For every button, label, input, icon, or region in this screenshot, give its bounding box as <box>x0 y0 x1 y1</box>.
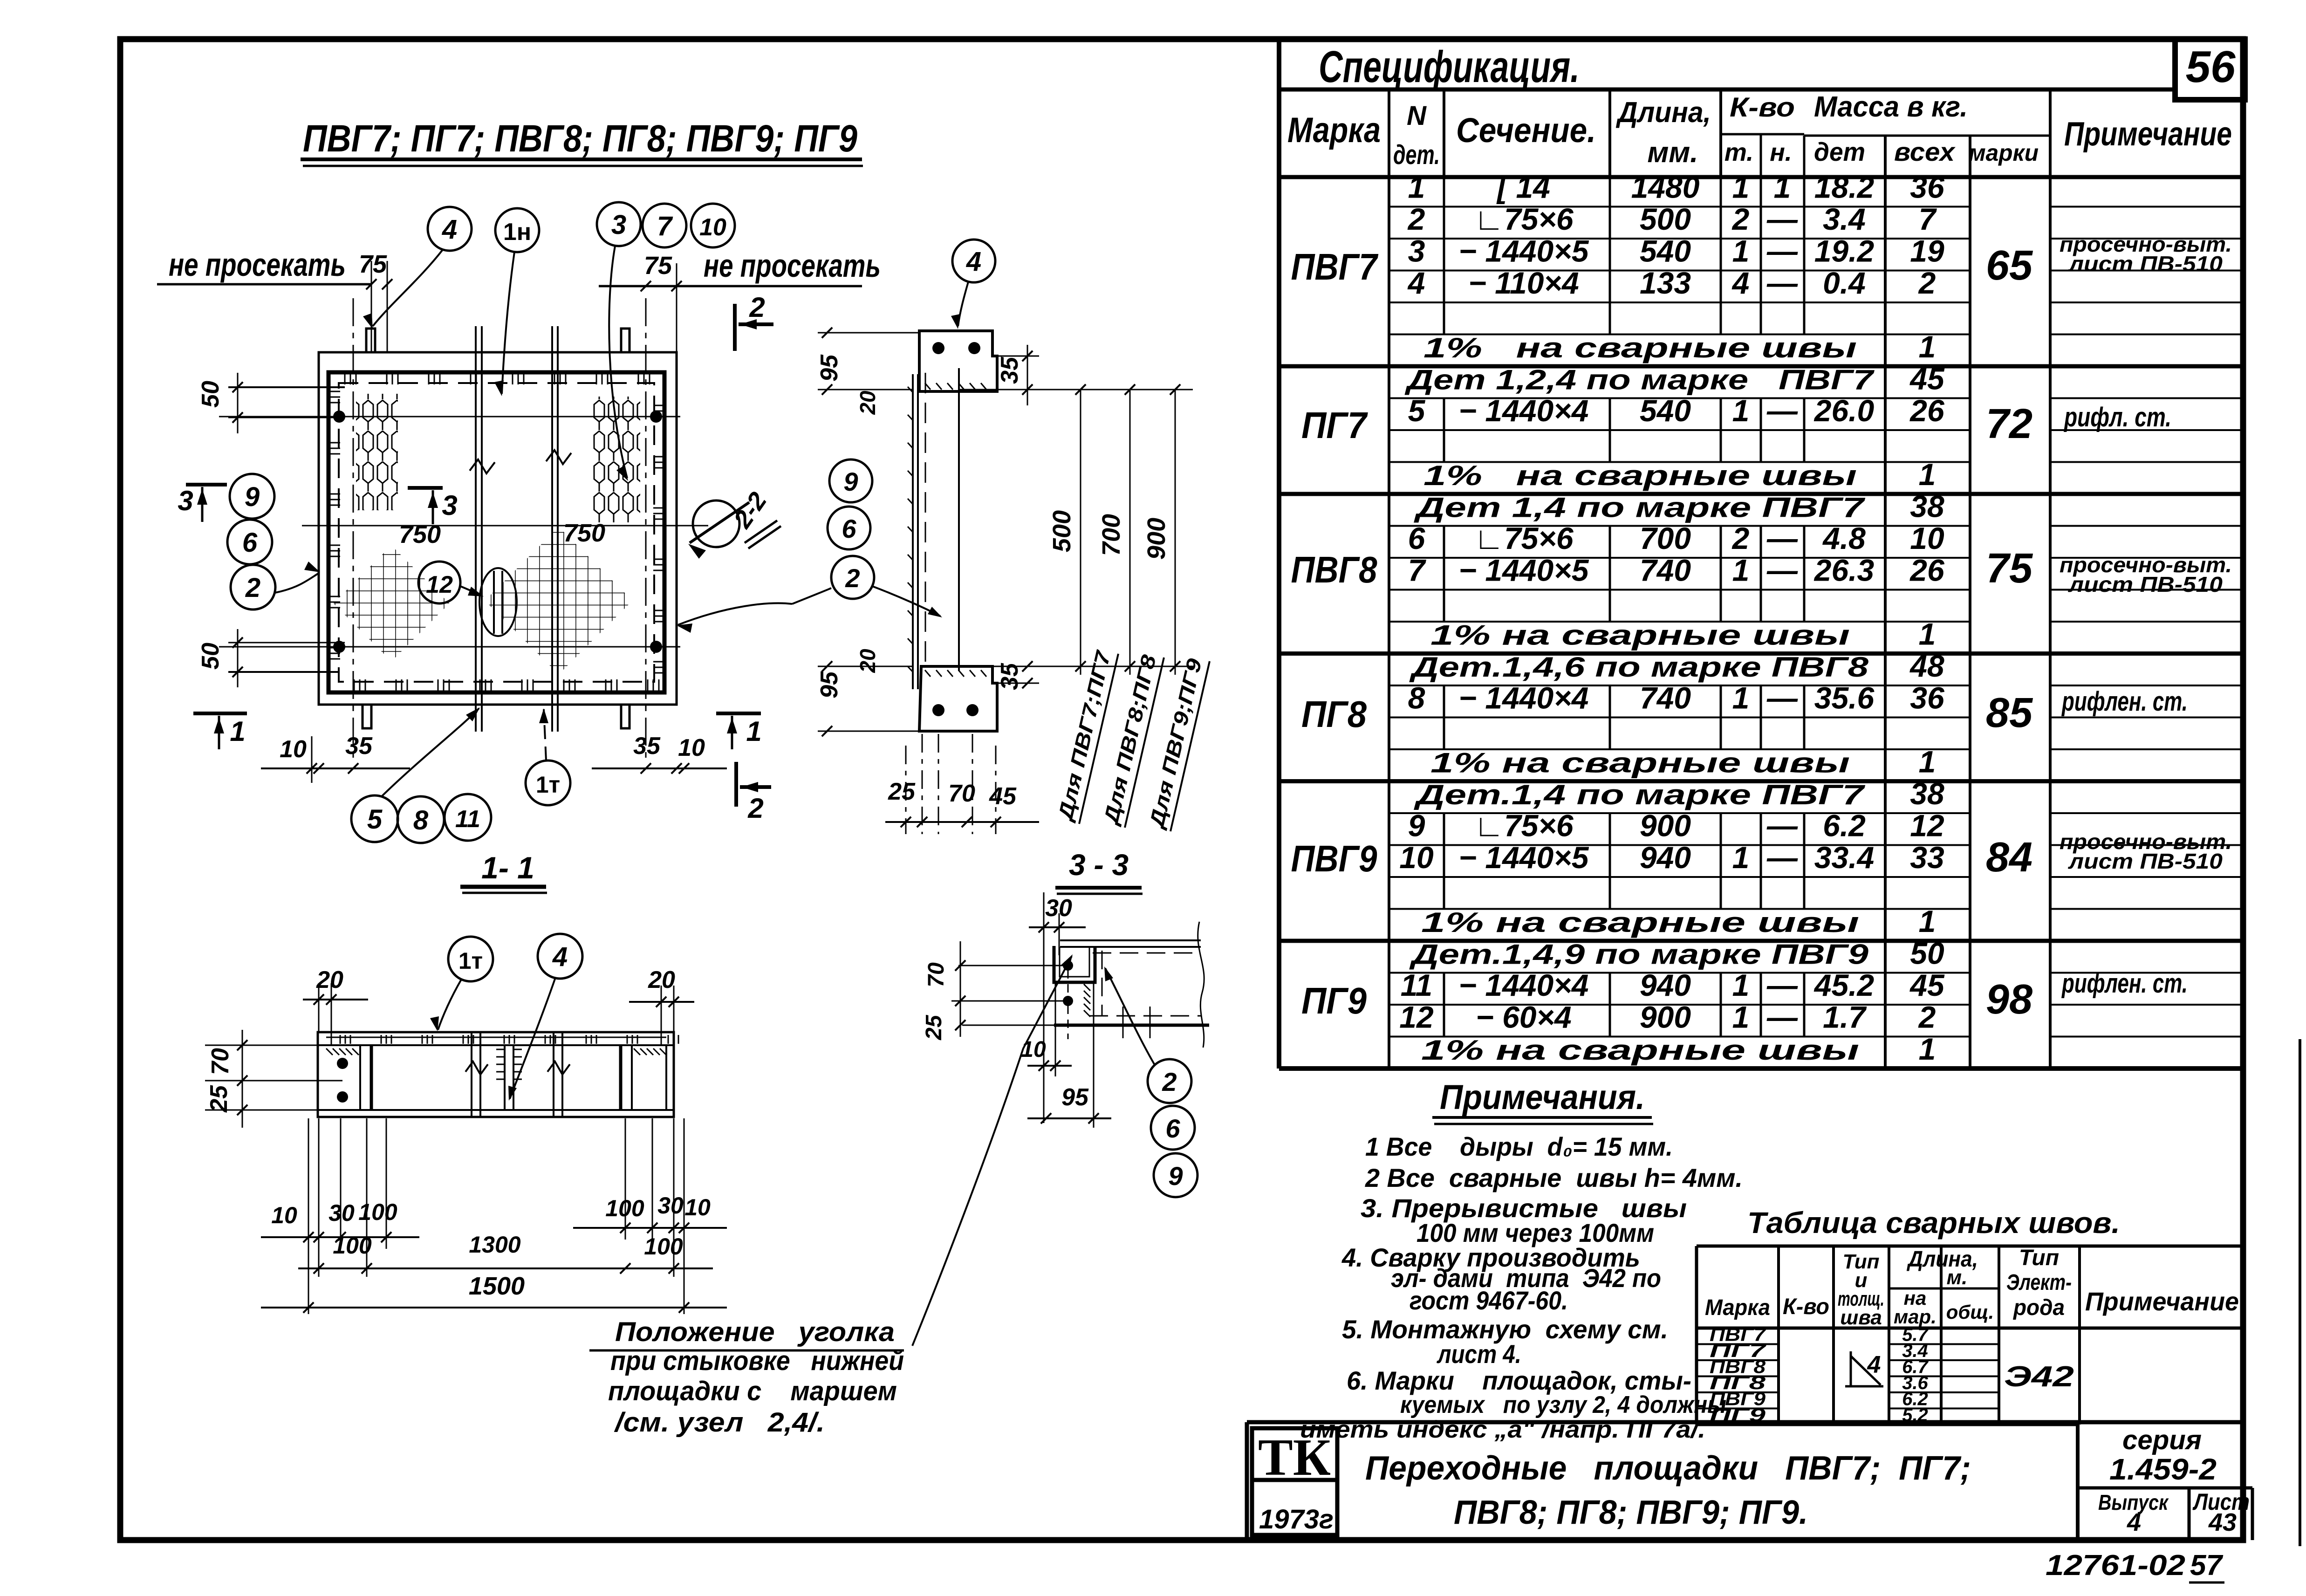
leader circle4 <box>958 282 968 326</box>
svg-text:10: 10 <box>1399 840 1434 875</box>
svg-text:Спецификация.: Спецификация. <box>1319 42 1580 92</box>
leader circle2 (2-2) <box>792 588 831 604</box>
svg-text:700: 700 <box>1097 514 1125 556</box>
svg-text:6: 6 <box>1408 521 1426 555</box>
circles 5 8 11 <box>351 795 398 842</box>
svg-text:30: 30 <box>657 1192 684 1219</box>
svg-text:50: 50 <box>197 381 224 408</box>
svg-text:3.4: 3.4 <box>1823 202 1866 236</box>
svg-text:10: 10 <box>699 214 726 241</box>
svg-text:7: 7 <box>1919 202 1937 236</box>
svg-text:− 1440×5: − 1440×5 <box>1459 553 1589 587</box>
svg-text:100: 100 <box>605 1195 644 1221</box>
svg-text:70: 70 <box>948 780 975 807</box>
svg-text:ПГ9: ПГ9 <box>1301 980 1367 1021</box>
svg-text:1: 1 <box>1732 233 1750 268</box>
svg-text:36: 36 <box>1910 680 1945 715</box>
svg-text:− 1440×4: − 1440×4 <box>1459 680 1589 715</box>
svg-text:общ.: общ. <box>1946 1301 1994 1323</box>
svg-text:900: 900 <box>1640 1000 1691 1034</box>
svg-text:25: 25 <box>922 1014 946 1041</box>
plan outer rect <box>319 352 677 705</box>
svg-text:45: 45 <box>989 783 1017 810</box>
svg-text:—: — <box>1766 393 1798 428</box>
svg-text:12: 12 <box>1399 1000 1434 1034</box>
plan mid center line <box>302 525 708 527</box>
svg-text:940: 940 <box>1640 840 1691 875</box>
svg-text:− 1440×5: − 1440×5 <box>1459 233 1589 268</box>
svg-text:4.8: 4.8 <box>1822 521 1866 555</box>
plan leader circle 3 <box>597 202 641 246</box>
3-3 corner angle <box>1054 946 1095 982</box>
weld table header lines <box>1697 1327 2242 1330</box>
svg-text:лист ПВ-510: лист ПВ-510 <box>2068 252 2223 276</box>
2-2 top bracket <box>919 331 997 391</box>
svg-text:98: 98 <box>1986 976 2032 1023</box>
svg-text:2: 2 <box>1407 202 1425 236</box>
svg-text:Э42: Э42 <box>2004 1361 2074 1393</box>
svg-text:1973г: 1973г <box>1259 1504 1334 1534</box>
svg-text:70: 70 <box>207 1048 234 1075</box>
leader circle5 to plan bottom <box>381 708 479 797</box>
bar extension verticals <box>308 1118 309 1314</box>
detail circle 12 <box>418 562 460 603</box>
plan edge tick hatching right <box>653 405 664 406</box>
ne prosekat left line <box>157 283 371 286</box>
svg-text:ПВГ7: ПВГ7 <box>1291 246 1379 288</box>
bar mid pair 2 <box>553 1032 554 1117</box>
plan bottom stubs <box>363 705 371 728</box>
svg-text:7: 7 <box>657 211 673 241</box>
svg-text:всех: всех <box>1894 137 1956 166</box>
svg-text:Примечание: Примечание <box>2085 1287 2239 1316</box>
plate strip in ellipse <box>493 571 495 634</box>
plan vertical axis right <box>645 298 647 760</box>
svg-text:Положение уголка: Положение уголка <box>615 1317 895 1347</box>
plan bolt center lines <box>219 416 680 418</box>
circle 4 (1-1) <box>538 934 582 979</box>
svg-text:∟75×6: ∟75×6 <box>1474 808 1574 843</box>
svg-text:м.: м. <box>1947 1266 1968 1289</box>
svg-text:Таблица сварных швов.: Таблица сварных швов. <box>1747 1206 2120 1240</box>
3-3 break line <box>1198 922 1204 1048</box>
svg-text:4: 4 <box>2127 1508 2141 1536</box>
svg-text:740: 740 <box>1640 680 1691 715</box>
plan bolts <box>333 411 345 423</box>
honeycomb hatch left <box>356 394 398 510</box>
svg-text:4: 4 <box>966 247 981 277</box>
spec table title underline line <box>1279 88 2175 92</box>
svg-text:750: 750 <box>399 521 441 548</box>
svg-text:11: 11 <box>455 806 480 833</box>
svg-text:1 Все дыры d₀= 15 мм.: 1 Все дыры d₀= 15 мм. <box>1365 1132 1673 1161</box>
svg-text:1% на сварные швы: 1% на сварные швы <box>1423 332 1857 363</box>
svg-text:6: 6 <box>242 527 258 558</box>
svg-text:3: 3 <box>1408 233 1425 268</box>
svg-text:38: 38 <box>1910 776 1944 811</box>
svg-text:2 Все сварные швы h= 4мм.: 2 Все сварные швы h= 4мм. <box>1365 1163 1743 1192</box>
bar top plate lines <box>318 1044 674 1046</box>
svg-text:рифл. ст.: рифл. ст. <box>2063 402 2171 432</box>
svg-text:5: 5 <box>367 804 383 835</box>
svg-text:2: 2 <box>1918 1000 1936 1034</box>
svg-text:1: 1 <box>1732 170 1750 204</box>
svg-text:5: 5 <box>1408 393 1426 428</box>
svg-text:72: 72 <box>1986 401 2032 447</box>
svg-text:900: 900 <box>1143 518 1170 560</box>
plan edge tick hatching left <box>329 391 340 392</box>
leader from circle 3 <box>609 246 627 478</box>
svg-text:100: 100 <box>644 1233 683 1260</box>
svg-text:ТК: ТК <box>1258 1429 1331 1486</box>
svg-text:1% на сварные швы: 1% на сварные швы <box>1421 907 1859 938</box>
svg-text:1: 1 <box>1732 393 1750 428</box>
svg-text:дет.: дет. <box>1393 140 1440 170</box>
svg-text:133: 133 <box>1640 266 1691 300</box>
svg-text:10: 10 <box>678 734 705 761</box>
svg-text:[ 14: [ 14 <box>1496 170 1550 204</box>
svg-text:70: 70 <box>924 962 949 987</box>
svg-text:30: 30 <box>328 1200 355 1226</box>
bar hatch right end <box>634 1048 640 1055</box>
svg-text:45: 45 <box>1909 968 1945 1002</box>
svg-text:1: 1 <box>230 716 245 747</box>
svg-text:2: 2 <box>845 563 860 593</box>
weld table frame <box>1697 1245 2242 1248</box>
svg-text:1% на сварные швы: 1% на сварные швы <box>1430 619 1850 651</box>
svg-text:3: 3 <box>611 210 626 240</box>
svg-text:2: 2 <box>1162 1067 1177 1096</box>
title block frame <box>1247 1420 2243 1425</box>
plan circles 9 6 2 <box>230 474 274 519</box>
circle 1T upper <box>526 760 570 805</box>
svg-text:10: 10 <box>684 1194 711 1220</box>
leader 4 (1-1) <box>510 978 555 1099</box>
svg-text:4: 4 <box>1731 266 1750 300</box>
svg-text:Тип: Тип <box>2019 1246 2059 1270</box>
svg-text:т.: т. <box>1724 138 1753 166</box>
svg-text:100: 100 <box>333 1233 372 1259</box>
svg-text:1: 1 <box>1732 968 1750 1002</box>
svg-text:∟75×6: ∟75×6 <box>1474 521 1574 555</box>
crosshatch patch right <box>485 527 633 675</box>
svg-text:10: 10 <box>271 1202 297 1228</box>
svg-text:50: 50 <box>1910 936 1944 970</box>
svg-text:7: 7 <box>1408 553 1427 587</box>
svg-text:75: 75 <box>644 252 672 280</box>
svg-text:− 60×4: − 60×4 <box>1476 1000 1572 1034</box>
svg-text:1: 1 <box>746 716 761 747</box>
svg-text:—: — <box>1766 968 1798 1002</box>
svg-text:50: 50 <box>197 643 224 670</box>
svg-text:ПВГ9: ПВГ9 <box>1291 838 1377 879</box>
svg-text:19.2: 19.2 <box>1814 233 1875 268</box>
bar bottom lines <box>318 1109 674 1111</box>
leader 1T (1-1) <box>438 980 461 1030</box>
svg-text:4: 4 <box>442 214 457 245</box>
svg-text:75: 75 <box>359 250 387 278</box>
2-2 bottom bracket <box>919 666 997 731</box>
svg-text:2: 2 <box>1918 266 1936 300</box>
svg-text:2: 2 <box>245 573 260 603</box>
svg-text:ПГ8: ПГ8 <box>1301 693 1367 735</box>
svg-text:20: 20 <box>855 390 880 415</box>
svg-text:45: 45 <box>1909 361 1945 396</box>
circle 1T (1-1) <box>448 937 493 981</box>
svg-text:1: 1 <box>1732 1000 1750 1034</box>
svg-text:ПВГ7; ПГ7; ПВГ8; ПГ8; ПВГ9; ПГ: ПВГ7; ПГ7; ПВГ8; ПГ8; ПВГ9; ПГ9 <box>303 117 857 160</box>
svg-text:Сечение.: Сечение. <box>1456 111 1596 150</box>
svg-text:Примечания.: Примечания. <box>1440 1078 1645 1117</box>
svg-text:10: 10 <box>280 736 307 763</box>
plan vertical pair 2 <box>551 326 553 732</box>
svg-text:4: 4 <box>552 942 568 972</box>
svg-text:65: 65 <box>1986 242 2033 289</box>
spec header K-vo split line <box>1721 133 1804 136</box>
svg-text:шва: шва <box>1840 1306 1882 1329</box>
svg-text:Дет 1,2,4 по марке ПВГ7: Дет 1,2,4 по марке ПВГ7 <box>1404 364 1875 395</box>
svg-text:ПГ7: ПГ7 <box>1301 404 1368 446</box>
svg-text:Дет 1,4 по марке ПВГ7: Дет 1,4 по марке ПВГ7 <box>1413 492 1866 523</box>
svg-text:36: 36 <box>1910 170 1945 204</box>
leader 1T dashes <box>544 709 546 760</box>
svg-text:—: — <box>1766 840 1798 875</box>
svg-text:1: 1 <box>1732 553 1750 587</box>
plan top stubs <box>366 329 375 352</box>
scan page edge line right <box>2299 1039 2301 1546</box>
circle 4 (2-2) <box>952 240 995 282</box>
svg-text:марки: марки <box>1969 140 2039 166</box>
series box <box>2076 1422 2080 1540</box>
svg-text:8: 8 <box>413 805 429 836</box>
leader 12 to ellipse <box>460 586 482 596</box>
svg-text:1- 1: 1- 1 <box>481 850 534 885</box>
plan vertical axis left <box>353 298 354 760</box>
svg-text:− 1440×5: − 1440×5 <box>1459 840 1589 875</box>
3-3 bolts <box>1063 960 1073 971</box>
svg-text:35: 35 <box>633 733 661 760</box>
svg-text:2: 2 <box>1731 521 1750 555</box>
svg-text:940: 940 <box>1640 968 1691 1002</box>
svg-text:− 1440×4: − 1440×4 <box>1459 393 1589 428</box>
svg-text:95: 95 <box>816 671 843 699</box>
svg-text:25: 25 <box>205 1085 233 1113</box>
svg-text:540: 540 <box>1640 393 1691 428</box>
plan leader circle 4 <box>428 207 472 251</box>
bar mid pair 1 <box>471 1032 472 1117</box>
svg-text:10: 10 <box>1021 1037 1046 1062</box>
svg-text:при стыковке нижней: при стыковке нижней <box>610 1346 904 1376</box>
2-2 circles 9 6 2 <box>829 459 872 502</box>
svg-text:рифлен. ст.: рифлен. ст. <box>2061 686 2188 717</box>
svg-text:33.4: 33.4 <box>1814 840 1874 875</box>
bar left end detail <box>359 1045 361 1110</box>
plan vertical pair 1 <box>475 326 477 732</box>
svg-text:дет: дет <box>1814 137 1865 166</box>
svg-text:− 110×4: − 110×4 <box>1468 266 1579 300</box>
svg-text:26: 26 <box>1909 393 1945 428</box>
bar 1-1 outline <box>318 1032 674 1117</box>
svg-text:45.2: 45.2 <box>1813 968 1875 1002</box>
svg-text:—: — <box>1766 266 1798 300</box>
leader circle2 to plan <box>275 573 319 593</box>
spec table vertical lines <box>1277 39 1281 1069</box>
spec table row lines <box>1389 206 1970 208</box>
svg-text:Масса в кг.: Масса в кг. <box>1814 91 1968 123</box>
svg-text:500: 500 <box>1640 202 1691 236</box>
svg-text:1: 1 <box>1919 904 1936 938</box>
leader from circle 1H <box>502 252 514 394</box>
svg-text:1: 1 <box>1919 616 1936 651</box>
svg-text:35: 35 <box>345 733 373 760</box>
svg-text:84: 84 <box>1986 834 2032 881</box>
svg-text:− 1440×4: − 1440×4 <box>1459 968 1589 1002</box>
svg-text:75: 75 <box>1986 545 2033 592</box>
svg-text:95: 95 <box>1061 1084 1089 1111</box>
svg-text:1т: 1т <box>458 948 483 974</box>
svg-text:12761-02: 12761-02 <box>2046 1549 2185 1582</box>
svg-text:2: 2 <box>749 292 765 323</box>
svg-text:3 - 3: 3 - 3 <box>1069 848 1129 882</box>
bar hatch left end <box>326 1048 333 1055</box>
svg-text:1480: 1480 <box>1631 170 1700 204</box>
svg-text:2: 2 <box>747 793 763 824</box>
honeycomb hatch right <box>592 397 640 522</box>
svg-text:1.7: 1.7 <box>1823 1000 1867 1034</box>
svg-text:Марка: Марка <box>1705 1295 1770 1320</box>
svg-text:43: 43 <box>2208 1508 2237 1536</box>
svg-text:12: 12 <box>426 571 453 598</box>
3-3 hatch ticks <box>1084 984 1090 991</box>
svg-text:лист 4.: лист 4. <box>1436 1339 1521 1369</box>
ne prosekat right line <box>599 285 862 288</box>
svg-text:500: 500 <box>1048 510 1076 552</box>
svg-text:/см. узел 2,4/.: /см. узел 2,4/. <box>614 1407 825 1438</box>
svg-text:100: 100 <box>358 1199 397 1225</box>
leader from circle 4 <box>373 250 443 326</box>
svg-text:9: 9 <box>1408 808 1425 843</box>
svg-text:20: 20 <box>855 649 880 673</box>
svg-text:1: 1 <box>1919 329 1936 364</box>
svg-text:площадки с маршем: площадки с маршем <box>608 1376 897 1406</box>
svg-text:740: 740 <box>1640 553 1691 587</box>
svg-text:4: 4 <box>1867 1351 1881 1378</box>
svg-text:мм.: мм. <box>1648 137 1698 169</box>
section marker 2 bottom right <box>734 762 738 807</box>
plan edge tick hatching bottom <box>354 679 355 691</box>
svg-text:не просекать: не просекать <box>704 247 881 284</box>
page number box <box>2175 39 2245 100</box>
section marker 1 bottom right <box>716 712 761 715</box>
spec header bottom line <box>1279 175 2243 179</box>
svg-text:Примечание: Примечание <box>2064 116 2232 153</box>
svg-text:—: — <box>1766 553 1798 587</box>
long leader to 3-3 corner <box>912 956 1072 1346</box>
svg-text:25: 25 <box>888 778 916 805</box>
svg-text:—: — <box>1766 202 1798 236</box>
svg-text:6: 6 <box>842 514 856 543</box>
2-2 vertical member <box>912 374 914 689</box>
svg-text:ПВГ8; ПГ8; ПВГ9; ПГ9.: ПВГ8; ПГ8; ПВГ9; ПГ9. <box>1454 1494 1808 1531</box>
3-3 inner dashed <box>1093 952 1195 954</box>
svg-text:1% на сварные швы: 1% на сварные швы <box>1421 1034 1859 1066</box>
section 2-2 pointer symbol <box>693 500 739 547</box>
svg-text:1: 1 <box>1774 170 1791 204</box>
crosshatch patch left <box>334 546 450 662</box>
svg-text:—: — <box>1766 808 1798 843</box>
TK box <box>1252 1428 1337 1480</box>
svg-text:6: 6 <box>1165 1114 1180 1143</box>
svg-text:N: N <box>1407 101 1427 131</box>
section marker 1 bottom left <box>193 712 247 715</box>
3-3 bottom chord <box>1054 1024 1209 1027</box>
svg-text:4: 4 <box>1407 266 1425 300</box>
svg-text:—: — <box>1766 521 1798 555</box>
svg-text:∟75×6: ∟75×6 <box>1474 202 1574 236</box>
svg-text:рифлен. ст.: рифлен. ст. <box>2061 968 2188 999</box>
bar center cross piece <box>504 1045 506 1110</box>
svg-text:35.6: 35.6 <box>1814 680 1875 715</box>
2-2 dim lines 500 700 900 <box>959 389 1193 390</box>
svg-text:9: 9 <box>245 482 260 512</box>
svg-text:серия: серия <box>2122 1425 2202 1455</box>
svg-text:95: 95 <box>816 354 843 382</box>
svg-text:540: 540 <box>1640 233 1691 268</box>
plan leader circle 7 <box>643 204 686 247</box>
year box <box>1252 1480 1337 1535</box>
svg-text:3: 3 <box>442 490 457 521</box>
svg-text:26: 26 <box>1909 553 1945 587</box>
svg-text:К-во: К-во <box>1783 1295 1829 1319</box>
svg-text:35: 35 <box>996 356 1023 384</box>
svg-text:1: 1 <box>1919 744 1936 779</box>
svg-text:1н: 1н <box>503 219 531 246</box>
svg-text:10: 10 <box>1910 521 1944 555</box>
svg-text:1: 1 <box>1408 170 1425 204</box>
svg-text:1% на сварные швы: 1% на сварные швы <box>1430 747 1850 778</box>
svg-text:6.2: 6.2 <box>1823 808 1866 843</box>
svg-text:Элект-: Элект- <box>2006 1270 2072 1295</box>
section 3 marker in plan <box>408 486 443 490</box>
svg-text:57: 57 <box>2190 1549 2223 1582</box>
svg-text:К-во: К-во <box>1730 92 1795 123</box>
leader circle2 (3-3) <box>1105 968 1155 1065</box>
svg-text:Дет.1,4,6 по марке ПВГ8: Дет.1,4,6 по марке ПВГ8 <box>1409 651 1868 683</box>
svg-text:18.2: 18.2 <box>1814 170 1875 204</box>
svg-text:—: — <box>1766 680 1798 715</box>
svg-text:1% на сварные швы: 1% на сварные швы <box>1423 460 1857 491</box>
plan dashed plate outline <box>339 383 654 682</box>
svg-text:Марка: Марка <box>1287 110 1381 150</box>
svg-text:1500: 1500 <box>469 1272 525 1300</box>
svg-text:1300: 1300 <box>469 1232 520 1258</box>
svg-text:1: 1 <box>1732 680 1750 715</box>
3-3 top flange <box>1060 939 1201 941</box>
svg-text:8: 8 <box>1408 680 1425 715</box>
svg-text:—: — <box>1766 233 1798 268</box>
section 3 marker left <box>186 483 227 486</box>
plan leader circle 1H <box>495 208 539 252</box>
svg-text:ПВГ8: ПВГ8 <box>1291 549 1377 590</box>
svg-text:1т: 1т <box>536 772 560 798</box>
svg-text:19: 19 <box>1910 233 1944 268</box>
3-3 circles 2 6 9 <box>1148 1059 1191 1103</box>
svg-text:Длина,: Длина, <box>1615 96 1711 129</box>
svg-text:12: 12 <box>1910 808 1944 843</box>
svg-text:0.4: 0.4 <box>1823 266 1866 300</box>
svg-text:9: 9 <box>1168 1161 1183 1191</box>
svg-text:лист ПВ-510: лист ПВ-510 <box>2068 572 2223 596</box>
